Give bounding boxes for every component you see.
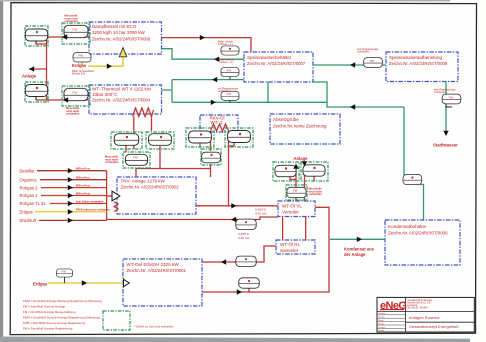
- svg-text:Bearb.: Bearb.: [379, 316, 386, 319]
- burner triangle B7: [124, 279, 130, 286]
- svg-text:vorhanden: vorhanden: [357, 50, 370, 54]
- svg-text:10bar 300°C: 10bar 300°C: [92, 92, 118, 97]
- instrument I5 TW Stadtwasser: [434, 87, 461, 107]
- svg-text:Datum: Datum: [379, 312, 386, 315]
- instrument I10: [239, 278, 259, 288]
- wire yellow Erdgas to B7: [48, 282, 123, 284]
- svg-text:3 Raute + 1 l: 3 Raute + 1 l: [218, 42, 233, 46]
- svg-text:verbinden: verbinden: [218, 89, 230, 93]
- svg-text:* Geräte zur Zeit nicht vorhan: * Geräte zur Zeit nicht vorhanden: [134, 325, 174, 329]
- svg-text:Zeichn.Nr. keine Zeichnung: Zeichn.Nr. keine Zeichnung: [273, 124, 327, 129]
- wire red return loop B7 to B9: [202, 207, 329, 292]
- wire red G9 stem to VL line: [229, 141, 235, 206]
- svg-text:FW: FW: [73, 28, 78, 32]
- svg-text:Zeichn.Nr. A/02/24RI/IST/0004: Zeichn.Nr. A/02/24RI/IST/0004: [92, 98, 151, 103]
- svg-text:FW: FW: [293, 189, 298, 193]
- wire black I7 stem: [64, 277, 66, 283]
- wire red B2 zigzag left leg: [133, 117, 135, 150]
- coil red TNV inlet: [114, 202, 118, 212]
- wire red feed header vertical: [106, 171, 108, 220]
- wire red RKV right leg long: [228, 131, 230, 141]
- svg-text:vorhanden: vorhanden: [65, 19, 79, 23]
- burner triangle yellow B1: [119, 48, 126, 57]
- wire red main left vertical: [46, 37, 48, 100]
- svg-text:4-20 mA: 4-20 mA: [238, 236, 249, 240]
- svg-text:eNeG: eNeG: [380, 300, 406, 312]
- svg-text:TNV- Anlage 1279 kW: TNV- Anlage 1279 kW: [121, 178, 166, 183]
- svg-text:FW: FW: [370, 59, 375, 63]
- svg-text:Erdgas: Erdgas: [33, 282, 48, 287]
- wire red B2 zigzag right leg: [151, 117, 153, 132]
- box B6 TNV-Anlage: [117, 177, 196, 214]
- svg-text:FW: FW: [79, 54, 84, 58]
- wire green drop to Kondensat tank: [404, 107, 424, 220]
- svg-text:FW: FW: [227, 68, 232, 72]
- svg-text:Gesellschaft für Energie-: Gesellschaft für Energie-: [408, 299, 434, 302]
- svg-text:Stadtwasser: Stadtwasser: [433, 143, 458, 148]
- arrow a14 up Anlage: [293, 164, 298, 169]
- title block: [377, 297, 474, 332]
- arrow a2 left Anlage stub: [29, 66, 34, 71]
- box B1 Dampfkessel mit ECO: [89, 22, 162, 54]
- svg-text:Zeichn.Nr. A/02/24RI/IST/0006: Zeichn.Nr. A/02/24RI/IST/0006: [92, 36, 151, 41]
- svg-text:BH bar 300: BH bar 300: [72, 71, 86, 75]
- svg-text:WT-Öl VL: WT-Öl VL: [282, 203, 302, 209]
- wire green Kondensat into B8: [330, 238, 385, 240]
- svg-text:Zeichn.Nr. A/02/24RI/IST/0009: Zeichn.Nr. A/02/24RI/IST/0009: [389, 61, 448, 66]
- svg-text:Speisewasserbehälter: Speisewasserbehälter: [247, 55, 292, 60]
- wire green B3 to B4 link: [313, 64, 386, 66]
- box B3 Speisewasserbehaelter: [244, 52, 313, 82]
- equipment G6: [146, 132, 174, 149]
- wire red G1 stem link: [36, 41, 47, 44]
- wire green B2 jog: [162, 80, 245, 103]
- wire green condensate header: [172, 101, 327, 103]
- instrument I6 M on condensate drop: [403, 175, 422, 185]
- arrow a9 left green y65: [350, 62, 355, 67]
- legend text block: [23, 299, 102, 331]
- svg-text:MID m³/h at: MID m³/h at: [76, 191, 90, 195]
- svg-text:Zeichn.Nr. A/02/24RI/IST/0002: Zeichn.Nr. A/02/24RI/IST/0002: [121, 184, 180, 189]
- svg-text:Erdgas: Erdgas: [72, 63, 87, 68]
- scan gray line top: [0, 0, 450, 1]
- company info: [408, 299, 434, 310]
- equipment G5: [111, 132, 142, 149]
- svg-text:Name: Name: [379, 323, 386, 325]
- svg-text:4-20 mA: 4-20 mA: [255, 212, 266, 216]
- label Erdgas top: [72, 63, 94, 75]
- arrow a13 right yellow bottom: [82, 280, 87, 285]
- arrow a18 left into B7: [221, 259, 226, 264]
- svg-text:der Anlage: der Anlage: [344, 252, 366, 257]
- wire red RKV left leg lower: [210, 164, 212, 177]
- svg-text:Zeichn.Nr. A/02/24RI/IST/0007: Zeichn.Nr. A/02/24RI/IST/0007: [247, 61, 306, 66]
- equipment G2: [62, 23, 90, 44]
- arrow a16 right TNV to VL: [231, 203, 236, 208]
- svg-text:Name: Name: [379, 330, 386, 332]
- wire red riser Anlage down arrow: [304, 166, 306, 201]
- coil red RKV WT-3: [211, 124, 229, 131]
- svg-text:Absetzgrube: Absetzgrube: [273, 117, 299, 122]
- svg-text:vorhanden: vorhanden: [105, 160, 119, 164]
- left col tiny labels: [379, 312, 386, 332]
- svg-text:MID m³/h m: MID m³/h m: [76, 176, 90, 180]
- equipment G13 FW before Verteiler: [286, 185, 307, 200]
- wire red G11 stem hook: [290, 177, 296, 180]
- wire red burner feed TNV: [107, 195, 112, 197]
- arrow a7 right green y102.3: [211, 100, 216, 105]
- svg-text:Anlage: Anlage: [294, 156, 309, 161]
- svg-text:Kondensatbehälter: Kondensatbehälter: [388, 224, 427, 229]
- svg-text:Zeichn.Nr. A/02/24RI/IST/0001: Zeichn.Nr. A/02/24RI/IST/0001: [127, 268, 187, 273]
- wire red G3 stem link: [35, 96, 37, 100]
- equipment G11 Anlage left: [273, 162, 299, 181]
- svg-text:Anlagen Schema: Anlagen Schema: [409, 315, 440, 320]
- arrow a8 left green y107: [350, 104, 355, 109]
- box B4 Speisewasseraufbereitung: [386, 52, 458, 82]
- svg-text:Lüneburg: Lüneburg: [408, 304, 418, 307]
- arrow a5 left green y59: [214, 57, 219, 62]
- arrow a10 down Stadtwasser: [443, 131, 448, 136]
- svg-text:Destillat: Destillat: [20, 168, 36, 173]
- svg-text:FW = Durchfluß Anzeige Registr: FW = Durchfluß Anzeige Registrierung: [23, 327, 73, 331]
- svg-text:vorhanden: vorhanden: [309, 192, 323, 196]
- svg-text:Druckluft: Druckluft: [20, 218, 37, 223]
- svg-text:Kondensat aus: Kondensat aus: [344, 247, 375, 252]
- wire red measuring line lower: [107, 217, 278, 220]
- wire yellow Erdgas to boiler: [88, 57, 123, 66]
- wire red Anlage stub: [29, 68, 47, 70]
- temp label near B9: [255, 208, 267, 216]
- svg-text:MID m³/h at: MID m³/h at: [76, 183, 90, 187]
- svg-text:FW: FW: [133, 156, 138, 160]
- box B2 WT-Thermooel WT4: [89, 85, 162, 114]
- title block left col rows: [377, 314, 406, 316]
- coil red WT4 below B2: [133, 108, 154, 117]
- instrument I2 FW: [219, 57, 239, 79]
- svg-text:Speisewasseraufbereitung: Speisewasseraufbereitung: [389, 55, 443, 60]
- wire red TNV to VL Verteiler: [196, 205, 278, 207]
- wire yellow stem erdgas meter: [81, 62, 83, 66]
- arrow a12 right yellow top: [107, 63, 112, 68]
- label right of G13: [309, 187, 323, 197]
- wire red G12 stem hook: [313, 176, 315, 181]
- wire red I8 stem: [245, 220, 247, 225]
- equipment G12 Anlage right: [301, 162, 328, 181]
- svg-text:Anlage: Anlage: [22, 74, 37, 79]
- svg-text:Zeichn.Nr. A/02/24RI/IST/0008: Zeichn.Nr. A/02/24RI/IST/0008: [388, 231, 448, 236]
- svg-text:MID m³/h at: MID m³/h at: [76, 167, 90, 171]
- arrow a6 left green y79.6: [212, 77, 217, 82]
- svg-text:Gesamtkonzept Energiefluß: Gesamtkonzept Energiefluß: [409, 324, 459, 329]
- arrow a3 left on WT feed: [63, 97, 68, 102]
- arrow a4 right steam line: [200, 35, 205, 40]
- svg-text:kein Zähler vorhanden: kein Zähler vorhanden: [76, 199, 104, 203]
- svg-text:FW: FW: [62, 269, 67, 273]
- equipment G9: [225, 128, 253, 147]
- burner triangle TNV: [112, 191, 120, 201]
- equipment G10: [201, 149, 221, 165]
- label left of G7: [105, 155, 119, 165]
- svg-text:( Raute + 1 ): ( Raute + 1 ): [219, 60, 234, 64]
- instrument I-erdgas top: [73, 53, 91, 62]
- instrument I4 FW on B3-B4 link: [357, 47, 382, 67]
- wire red steam B1 to B3 top: [162, 38, 252, 52]
- wire red G7 to TNV top: [135, 168, 137, 177]
- wire red feed to WT B2: [36, 99, 89, 101]
- instrument I8: [236, 219, 256, 229]
- box B7 WT-Oel Erhitzer: [123, 259, 202, 306]
- svg-text:WT-Oel Erhitzer 2325 kW: WT-Oel Erhitzer 2325 kW: [127, 262, 180, 267]
- equipment G4: [62, 86, 90, 106]
- box B9 WT-Oel VL Verteiler: [278, 201, 315, 217]
- svg-text:vorhanden: vorhanden: [434, 90, 447, 94]
- wire red RKV left leg to TNV: [210, 131, 212, 151]
- svg-text:Sammler: Sammler: [280, 248, 299, 253]
- svg-text:WT- Thermoöl WT 4 1162 kW: WT- Thermoöl WT 4 1162 kW: [92, 87, 152, 92]
- wire red riser Anlage up arrow: [295, 167, 297, 202]
- wire red feed to boiler B1: [47, 36, 90, 38]
- wire red B10 to WT-Oel Erhitzer: [202, 246, 276, 262]
- svg-text:TW: TW: [449, 95, 454, 99]
- svg-text:Datum: Datum: [379, 326, 386, 329]
- instrument I9: [236, 256, 256, 266]
- svg-text:WT- 3: WT- 3: [211, 120, 223, 125]
- legend empty box G14: [103, 311, 130, 330]
- box B5 Absetzgrube: [270, 114, 340, 144]
- svg-text:3200 kg/h 10 bar 2090 kW: 3200 kg/h 10 bar 2090 kW: [92, 30, 146, 35]
- instrument I1 Venturi M: [218, 39, 239, 55]
- equipment G7: [123, 152, 150, 168]
- svg-text:Rohgas 1: Rohgas 1: [20, 193, 39, 198]
- arrow a19 right return loop: [237, 289, 242, 294]
- svg-text:technik mbH & Co. KG: technik mbH & Co. KG: [408, 301, 431, 304]
- svg-text:Verteiler: Verteiler: [282, 210, 299, 215]
- svg-text:vorhanden: vorhanden: [66, 112, 80, 116]
- box B10 WT-Oel RL Sammler: [276, 240, 315, 254]
- svg-text:FM = Durchfluß Anzeige Mengenz: FM = Durchfluß Anzeige Mengenzählung: [23, 310, 76, 314]
- wire green Stadtwasser: [445, 82, 447, 135]
- svg-text:WT-Öl RL: WT-Öl RL: [280, 241, 301, 247]
- svg-text:FW = Durchfluß Summe Anzeige: FW = Durchfluß Summe Anzeige: [23, 305, 66, 309]
- svg-text:FWM = Durchfluß Anzeige Messun: FWM = Durchfluß Anzeige Messung Registri…: [23, 299, 102, 303]
- wire green B3 corner to treatment: [313, 82, 404, 107]
- label below G4: [66, 106, 80, 116]
- svg-text:Rohgas TL 32: Rohgas TL 32: [20, 201, 47, 206]
- instrument I7 FW erdgas bottom: [56, 269, 72, 277]
- svg-text:FW: FW: [73, 91, 78, 95]
- wire red B9 to B10 left connector: [282, 217, 284, 241]
- svg-text:FWB = Durchfluß Summe Anzeige: FWB = Durchfluß Summe Anzeige Registrier…: [23, 321, 85, 325]
- svg-text:Rohgas 2: Rohgas 2: [20, 185, 39, 190]
- svg-text:Gepr.: Gepr.: [379, 319, 385, 322]
- feed lines group: [20, 167, 111, 224]
- box B11 RKV-Oel WT-3: [200, 115, 238, 132]
- arrow a11 right into B8: [357, 237, 362, 242]
- arrow a17 left measuring line: [231, 217, 236, 222]
- arrow a1 left on boiler feed: [62, 34, 67, 39]
- svg-text:Tel. 04131 / 88 88-0: Tel. 04131 / 88 88-0: [408, 308, 429, 310]
- scan gray band bottom: [0, 337, 470, 342]
- box B8 Kondensatbehaelter: [385, 220, 460, 265]
- wire red G6 stem down: [159, 146, 161, 169]
- temp label below I8: [238, 232, 250, 240]
- wire red I10 stem: [248, 288, 250, 292]
- arrow a15 down Anlage: [302, 161, 307, 166]
- title block logo cell divider: [377, 310, 474, 312]
- wire green B3 bottom drop: [267, 82, 269, 102]
- svg-text:Dampfkessel mit ECO: Dampfkessel mit ECO: [92, 24, 137, 29]
- svg-text:Organica: Organica: [20, 177, 38, 182]
- label above G2: [65, 14, 79, 24]
- wire red B9 to B10 right connector: [305, 217, 307, 241]
- equipment G3: [25, 82, 48, 102]
- wire green B1 to B3 feedwater: [162, 49, 245, 60]
- wire red G5 stem down: [125, 145, 127, 152]
- scan gray band left: [0, 0, 3, 342]
- equipment G8: [186, 128, 214, 147]
- svg-text:FWM = Durchfluß Summe Anzeige: FWM = Durchfluß Summe Anzeige Registrier…: [23, 316, 100, 320]
- svg-text:FW Kondensans vorhanden: FW Kondensans vorhanden: [76, 208, 110, 212]
- wire red cross link to RKV leg: [136, 168, 211, 170]
- instrument I3 FW: [218, 86, 239, 102]
- svg-text:Erdgas: Erdgas: [20, 210, 33, 215]
- equipment G1: [25, 26, 48, 46]
